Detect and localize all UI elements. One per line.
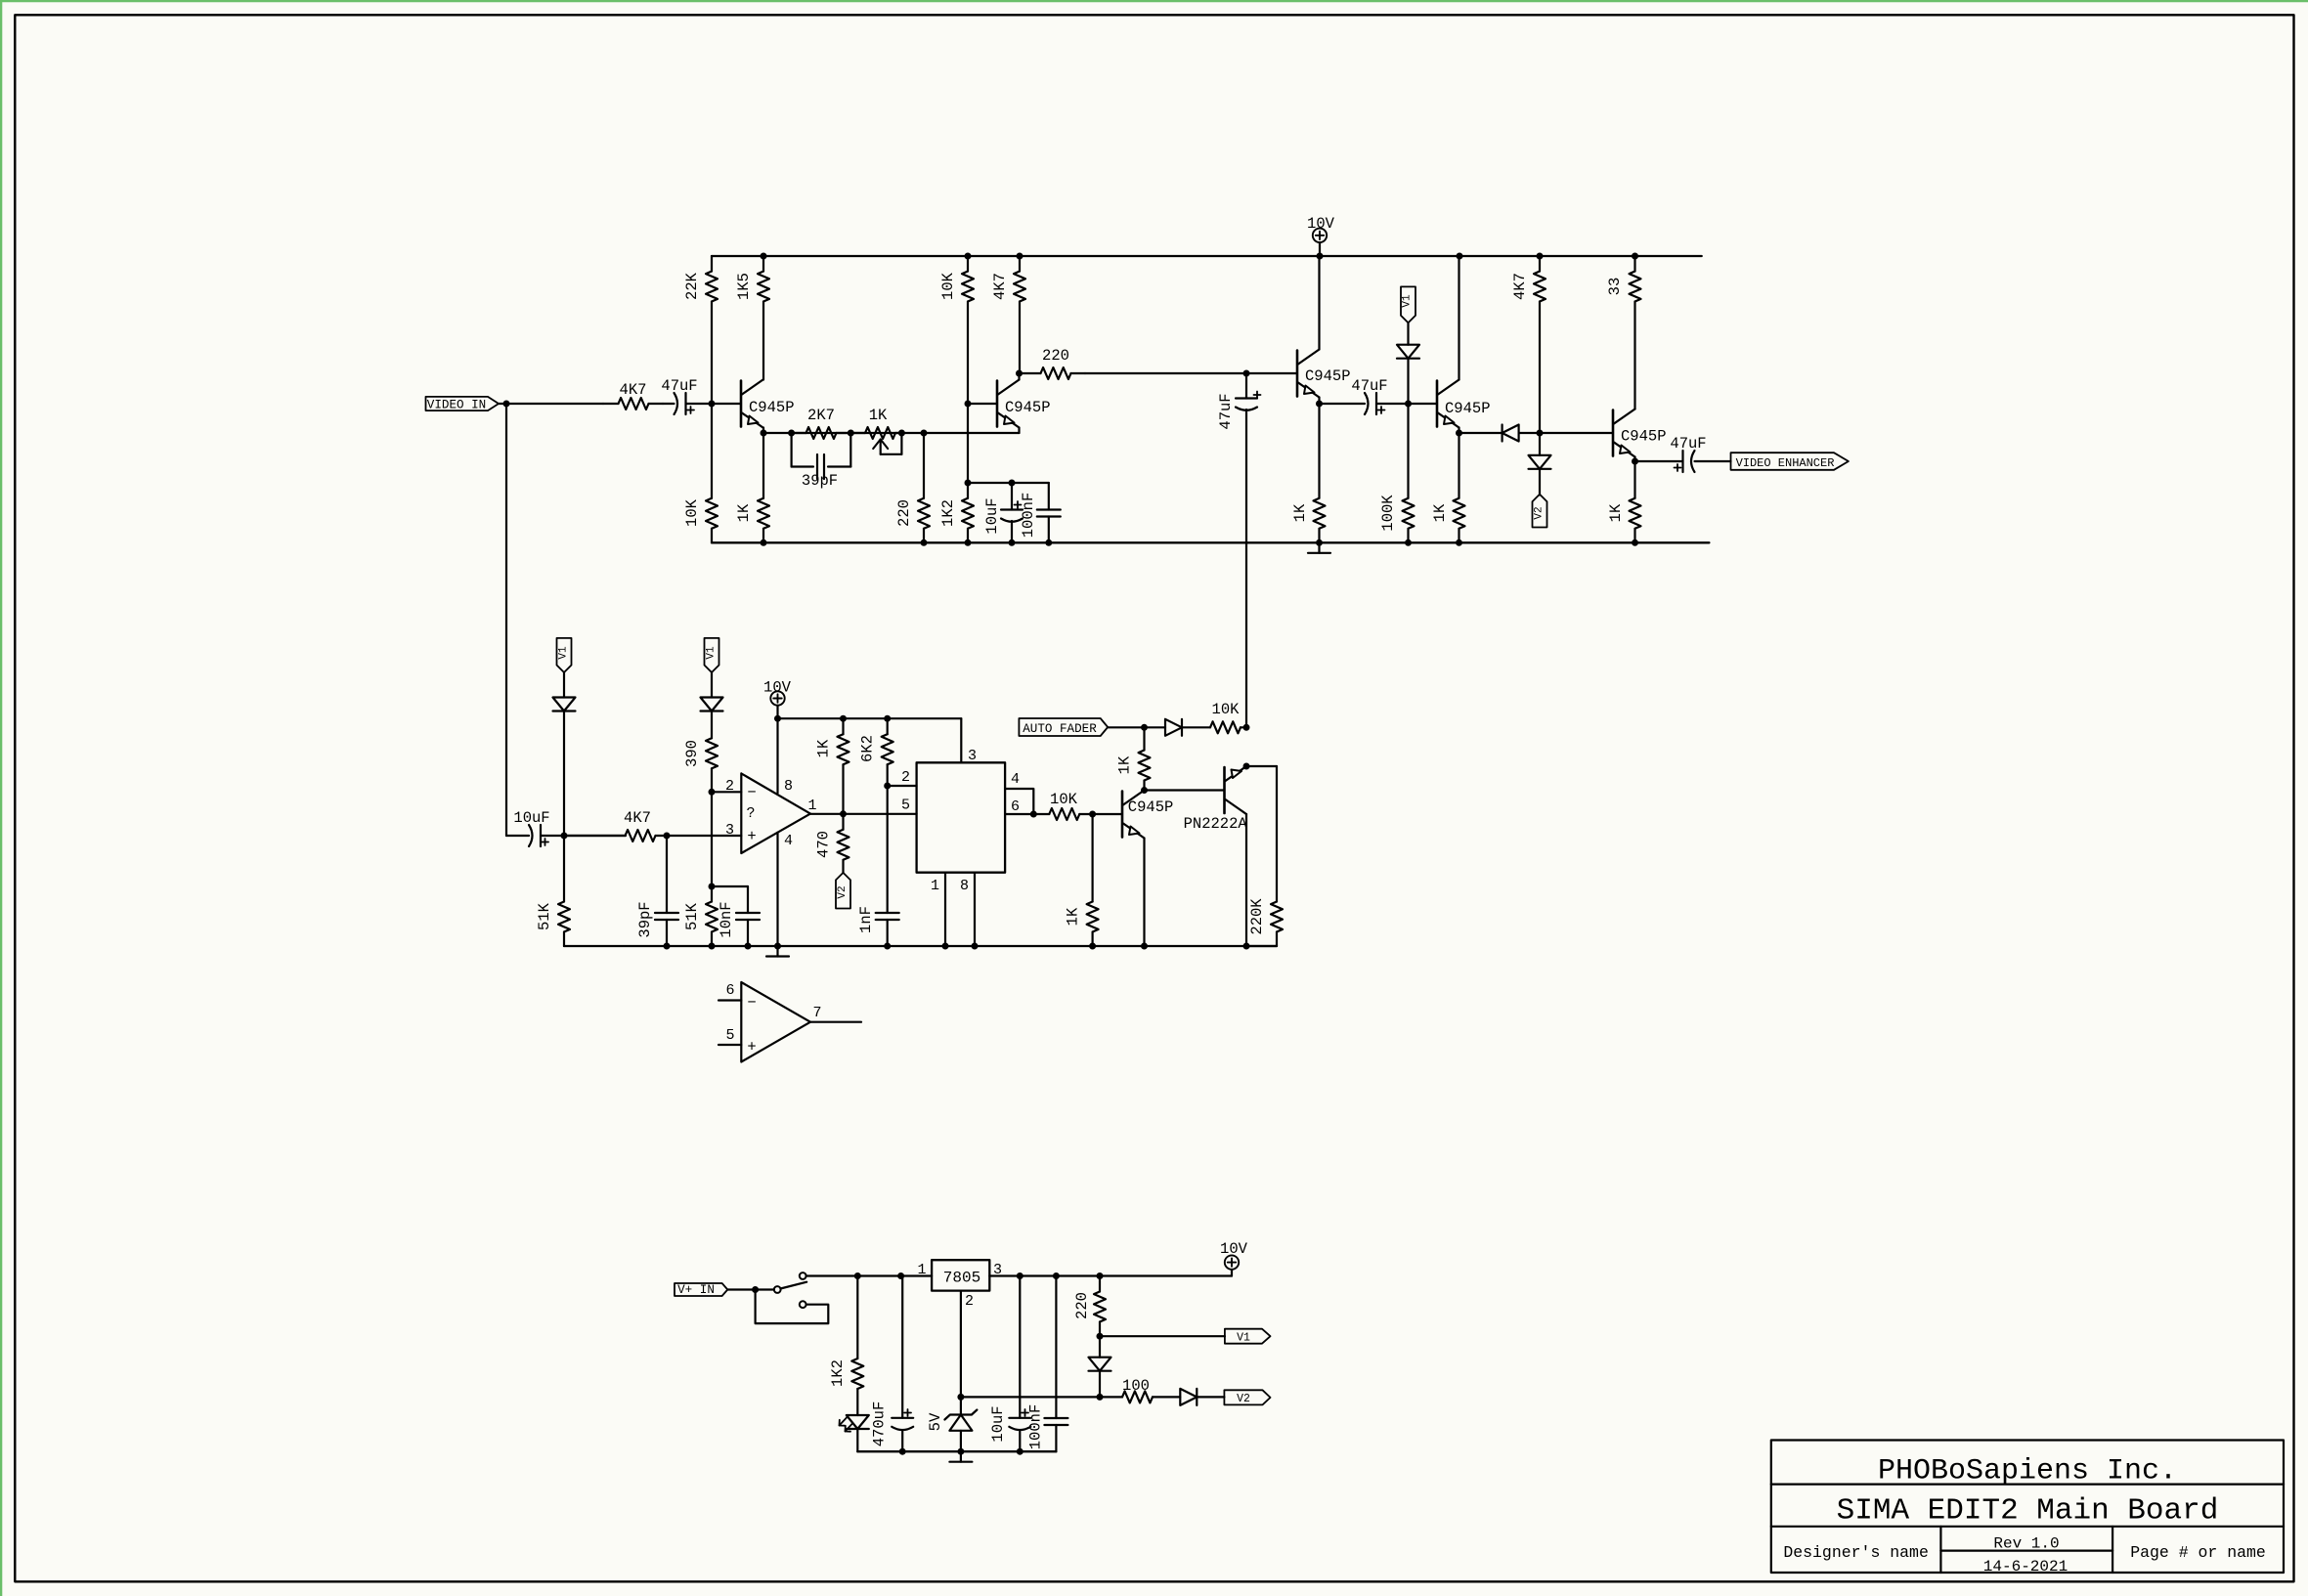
node 39pF / pin3	[664, 833, 671, 840]
resistor 1K (Q4 emitter)	[1431, 433, 1465, 542]
svg-text:Designer's name: Designer's name	[1783, 1543, 1929, 1562]
power symbol 10V (mid)	[763, 679, 792, 706]
svg-text:C945P: C945P	[1128, 798, 1174, 816]
wire V1 to diode	[1407, 323, 1409, 344]
global label V1	[1225, 1329, 1271, 1345]
node 220 top	[921, 430, 928, 437]
svg-text:220K: 220K	[1248, 898, 1266, 935]
svg-text:Rev 1.0: Rev 1.0	[1993, 1535, 2059, 1553]
wire 4K7 to C 47uF	[663, 403, 675, 405]
wire 10nF jog	[712, 886, 748, 913]
title block frame	[1771, 1441, 2284, 1574]
svg-text:1K: 1K	[869, 407, 888, 424]
switch SW1 pivot contact	[774, 1286, 781, 1293]
node Q2 base	[965, 401, 972, 408]
node Q5 1K bottom rail	[1632, 539, 1638, 546]
node 2K7 left	[788, 430, 795, 437]
node rail junction 1K5	[761, 253, 767, 260]
svg-text:7: 7	[812, 1005, 821, 1021]
wire IC pin2 stub	[888, 769, 917, 786]
node pin1 rail	[942, 943, 949, 950]
global label V+ IN	[675, 1283, 727, 1297]
title designer	[1783, 1543, 1929, 1562]
transistor Q2 C945P	[997, 380, 1051, 428]
wire 6K2 node down to 1nF	[887, 786, 889, 913]
title rev	[1993, 1535, 2059, 1553]
svg-text:51K: 51K	[683, 902, 701, 930]
switch SW1 lower contact	[800, 1301, 806, 1308]
ground (mid section)	[766, 946, 789, 957]
node rail junction 4K7 interstage	[1017, 253, 1023, 260]
capacitor 47uF (fader feed)	[1217, 373, 1261, 727]
node output / 1K / 470	[840, 810, 847, 817]
svg-text:100nF: 100nF	[1027, 1404, 1045, 1450]
svg-text:100K: 100K	[1379, 495, 1397, 532]
svg-text:470: 470	[815, 831, 833, 858]
svg-text:10V: 10V	[1220, 1240, 1248, 1258]
wire U1B pin5 stub	[719, 1027, 741, 1045]
wire diode to 390	[711, 712, 713, 739]
svg-text:1K2: 1K2	[829, 1359, 847, 1387]
trimmer 1K	[850, 407, 901, 454]
resistor 390	[683, 738, 718, 768]
svg-text:5: 5	[725, 1027, 734, 1044]
flag V1 (top)	[1401, 286, 1415, 323]
wire V1 flag to diode 2	[711, 672, 713, 698]
flag V1 (mid left)	[557, 638, 572, 672]
transistor Q1 C945P	[741, 380, 795, 428]
wire 10uF to 4K7	[541, 835, 626, 837]
svg-text:V1: V1	[706, 646, 718, 660]
node 1K bottom rail	[761, 539, 767, 546]
node 1K2 bottom rail	[965, 539, 972, 546]
node 1K2 column top	[854, 1272, 861, 1279]
wire 39pF left drop	[792, 433, 813, 467]
wire V2 row	[961, 1396, 1122, 1398]
node op-amp pin2	[709, 789, 716, 796]
node 47uF fader tap	[1243, 370, 1250, 377]
wire IC pin1 stub	[931, 873, 945, 946]
node trimmer wiper	[898, 430, 905, 437]
node 2K7 right	[848, 430, 854, 437]
svg-text:6: 6	[725, 982, 734, 999]
svg-text:100nF: 100nF	[1020, 493, 1037, 539]
power symbol 10V (top)	[1307, 215, 1335, 242]
transistor Q7 PN2222A	[1184, 766, 1248, 833]
node 470uF rail	[899, 1448, 906, 1455]
svg-text:10nF: 10nF	[718, 901, 735, 937]
resistor 100K	[1379, 404, 1415, 542]
svg-text:C945P: C945P	[1445, 400, 1491, 417]
wire Q3 collector	[1318, 256, 1320, 350]
resistor 33	[1606, 256, 1641, 410]
node 10uF bottom rail	[1009, 539, 1016, 546]
node 10nF bottom rail	[745, 943, 752, 950]
wire IC pin3 stub	[961, 718, 977, 764]
node 10V mid rail	[774, 715, 781, 722]
LED D (power)	[840, 1415, 869, 1432]
wire Q2 bias down	[967, 404, 969, 483]
svg-text:14-6-2021: 14-6-2021	[1983, 1558, 2068, 1575]
resistor 220 (V1 feed)	[1073, 1276, 1106, 1337]
svg-text:1K: 1K	[815, 739, 833, 757]
resistor 220K	[1246, 766, 1283, 946]
wire zener to rail	[960, 1431, 962, 1451]
wire 39pF right drop	[828, 433, 850, 467]
node 51K bottom rail	[709, 943, 716, 950]
capacitor 39pF (fader)	[636, 836, 678, 946]
resistor 1K5	[735, 256, 769, 380]
power symbol 10V (bottom)	[1220, 1240, 1248, 1270]
resistor 6K2	[859, 718, 893, 786]
wire op-amp output	[810, 798, 917, 814]
svg-text:22K: 22K	[683, 272, 701, 300]
wire 7805 pin2 down	[960, 1291, 962, 1415]
capacitor 39pF (top)	[802, 454, 838, 490]
svg-text:33: 33	[1606, 278, 1624, 296]
node 4K7 / diode column	[1537, 430, 1544, 437]
node pin4 rail	[774, 943, 781, 950]
resistor 1K2 (LED)	[829, 1276, 863, 1416]
node zener rail	[957, 1448, 964, 1455]
node Q3 1K bottom rail	[1316, 539, 1323, 546]
title date	[1983, 1558, 2068, 1575]
wire VIDEO IN to R 4K7	[499, 403, 603, 405]
diode D (V1 top)	[1397, 345, 1419, 359]
svg-text:SIMA EDIT2 Main Board: SIMA EDIT2 Main Board	[1837, 1494, 2219, 1529]
wire Q2 base to bar	[968, 403, 997, 405]
capacitor 47uF (output)	[1670, 435, 1706, 472]
node Q4 1K bottom rail	[1456, 539, 1462, 546]
svg-text:V2: V2	[1534, 506, 1546, 519]
diode D (auto fader)	[1165, 719, 1182, 736]
resistor 10K (fader injection)	[1210, 701, 1246, 733]
node Q4 emitter	[1456, 430, 1462, 437]
wire 10V row	[778, 717, 962, 719]
svg-text:VIDEO IN: VIDEO IN	[427, 399, 486, 412]
svg-text:AUTO FADER: AUTO FADER	[1023, 722, 1097, 736]
diode D (level shift)	[1502, 425, 1519, 442]
global label VIDEO IN	[426, 397, 500, 412]
wire AUTO FADER row	[1108, 726, 1165, 728]
resistor 10K (lower divider)	[683, 404, 718, 542]
top supply rail	[712, 255, 1702, 257]
transistor Q5 C945P	[1613, 410, 1667, 457]
wire 390 to pin2 node	[711, 768, 713, 792]
node V2 row junction	[1097, 1394, 1104, 1401]
svg-text:V2: V2	[837, 885, 849, 898]
wire Q6 emitter down	[1143, 839, 1145, 947]
wire Q5 emitter to output cap	[1635, 460, 1683, 462]
node 10uF pw top	[1017, 1272, 1023, 1279]
node 6K2 top	[884, 715, 891, 722]
diode D (to V2)	[1529, 433, 1551, 469]
wire pin3 row	[667, 835, 741, 837]
middle section ground rail	[564, 945, 1277, 947]
node 51K / input	[561, 833, 568, 840]
wire switch to 7805 pin1	[806, 1274, 933, 1276]
svg-text:C945P: C945P	[1005, 399, 1051, 416]
wire 10V stem (mid)	[776, 706, 778, 719]
wire 220 to Q3 base	[1085, 372, 1297, 374]
svg-text:?: ?	[746, 805, 755, 822]
global label AUTO FADER	[1019, 718, 1108, 736]
wire diode to V2 flag	[1539, 469, 1541, 495]
node 1K top	[840, 715, 847, 722]
resistor 1K (Q3 emitter)	[1291, 404, 1326, 542]
svg-text:390: 390	[683, 740, 701, 767]
svg-text:4K7: 4K7	[624, 809, 651, 827]
svg-text:PHOBoSapiens Inc.: PHOBoSapiens Inc.	[1878, 1455, 2177, 1488]
svg-text:10uF: 10uF	[513, 809, 549, 827]
node 10uF pw rail	[1017, 1448, 1023, 1455]
resistor 4K7 (input)	[603, 381, 663, 410]
svg-text:VIDEO ENHANCER: VIDEO ENHANCER	[1736, 456, 1835, 470]
green screen border (left edge)	[0, 0, 2, 1596]
capacitor 10uF (decoupling)	[983, 483, 1023, 542]
wire Q7 emitter to 220K	[1246, 765, 1277, 767]
svg-text:4K7: 4K7	[620, 381, 647, 399]
capacitor 10uF (power)	[989, 1276, 1030, 1452]
wire V+IN to switch	[727, 1288, 774, 1290]
svg-text:10K: 10K	[939, 272, 957, 300]
node 10K / 1K / Q6 base	[1089, 811, 1096, 818]
diode D (V1 mid-right)	[701, 698, 723, 712]
resistor 1K2	[939, 483, 974, 542]
svg-text:1K: 1K	[1291, 503, 1309, 522]
svg-text:1K: 1K	[1065, 907, 1082, 926]
svg-text:4: 4	[784, 833, 793, 849]
wire node to 10uF/100nF	[968, 482, 1049, 484]
wire 10V riser	[1231, 1270, 1233, 1276]
resistor 220 (interstage)	[1020, 347, 1086, 379]
title sheet name	[1837, 1494, 2219, 1529]
resistor 1K (Q6 base shunt)	[1065, 814, 1099, 946]
capacitor 100nF (power)	[1027, 1276, 1068, 1452]
wire 47uF to Q1 base	[686, 403, 742, 405]
svg-text:1: 1	[917, 1262, 926, 1278]
IC U2 box	[917, 762, 1006, 872]
node 1K fader top	[1141, 724, 1148, 731]
resistor 470	[815, 814, 849, 873]
diode D (V2 out)	[1180, 1389, 1197, 1405]
wire Q2 emitter stub	[1018, 428, 1020, 434]
node rail junction 4K7	[1537, 253, 1544, 260]
node 100K bottom rail	[1405, 539, 1412, 546]
node rail junction Q4 collector	[1457, 253, 1463, 260]
resistor 1K (op-amp out pull-up)	[815, 718, 849, 814]
node Q1 emitter	[761, 430, 767, 437]
wire Q4 emitter to diode	[1459, 432, 1502, 434]
node IC pin2	[884, 783, 891, 790]
svg-text:47uF: 47uF	[661, 377, 697, 395]
svg-text:2K7: 2K7	[807, 407, 835, 424]
svg-text:6: 6	[1011, 798, 1020, 815]
wire LED to rail	[856, 1429, 858, 1451]
svg-text:39pF: 39pF	[636, 901, 654, 937]
resistor 10K (Q2 bias)	[939, 256, 974, 404]
resistor 4K7 (pull-up)	[1511, 256, 1546, 433]
node 10uF top	[1009, 480, 1016, 487]
node Q2 collector	[1016, 370, 1023, 377]
wire 47uF to Q4 base	[1376, 403, 1437, 405]
node 39pF bottom rail	[664, 943, 671, 950]
svg-text:1K: 1K	[1607, 503, 1625, 522]
svg-text:V2: V2	[1237, 1393, 1250, 1405]
capacitor 10nF	[718, 901, 760, 946]
node 1nF bottom rail	[884, 943, 891, 950]
wire Q3 emitter to 47uF	[1320, 403, 1366, 405]
svg-text:10uF: 10uF	[989, 1405, 1007, 1442]
ground (power section)	[949, 1451, 972, 1462]
svg-text:5V: 5V	[927, 1412, 944, 1431]
wire switch bypass loop	[756, 1290, 829, 1324]
svg-text:C945P: C945P	[1621, 428, 1667, 446]
zener 5V	[927, 1410, 977, 1432]
wire Q3 emitter stub	[1318, 398, 1320, 405]
node V+IN tap	[752, 1286, 759, 1293]
wire V1 row	[1100, 1335, 1225, 1337]
wire Q1 emitter stub	[762, 428, 764, 434]
regulator U3 7805	[917, 1260, 1002, 1310]
node A junction (VIDEO IN tap)	[503, 401, 510, 408]
node 10V rail	[1317, 253, 1324, 260]
green screen border (top edge)	[0, 0, 2308, 2]
svg-text:2: 2	[965, 1293, 974, 1310]
node Q5 emitter	[1632, 458, 1638, 465]
wire to Q6 base	[1093, 813, 1122, 815]
svg-text:10K: 10K	[1050, 791, 1078, 808]
svg-text:1K2: 1K2	[939, 499, 957, 527]
node pin6/pin4	[1030, 811, 1037, 818]
svg-text:−: −	[747, 784, 756, 801]
wire cap to VIDEO ENHANCER	[1695, 460, 1731, 462]
wire 7805 pin3 row	[989, 1274, 1232, 1276]
node V1 row	[1097, 1333, 1104, 1340]
wire input column corner to 10uF	[506, 835, 529, 837]
switch SW1 lever	[780, 1282, 806, 1289]
ground (top section)	[1308, 542, 1330, 553]
svg-text:1K: 1K	[1431, 503, 1449, 522]
resistor 4K7 (Q2 collector load)	[991, 256, 1025, 373]
diode D (V1 to V2)	[1089, 1336, 1111, 1397]
wire IC pin8 stub	[960, 873, 975, 946]
svg-text:1: 1	[931, 878, 939, 894]
title page	[2130, 1543, 2266, 1562]
svg-text:4K7: 4K7	[991, 273, 1009, 300]
resistor 1K (Q5 emitter)	[1607, 461, 1641, 542]
wire op-amp pin4 ground	[776, 833, 778, 946]
resistor 4K7 (fader input)	[564, 809, 667, 841]
wire diode down to input node	[563, 712, 565, 837]
transistor Q4 C945P	[1437, 380, 1491, 428]
node Q4 base / V1 diode	[1405, 401, 1412, 408]
flag V2 (top)	[1533, 495, 1547, 528]
svg-text:39pF: 39pF	[802, 472, 838, 490]
svg-text:5: 5	[901, 798, 910, 814]
op-amp U1B (spare)	[741, 982, 810, 1062]
resistor 100	[1122, 1377, 1180, 1402]
svg-text:1K: 1K	[735, 503, 753, 522]
svg-text:1K5: 1K5	[735, 273, 753, 300]
svg-text:3: 3	[725, 822, 734, 839]
svg-text:8: 8	[784, 778, 793, 795]
node 100nF pw top	[1053, 1272, 1060, 1279]
svg-text:4: 4	[1011, 771, 1020, 788]
bottom rail (top section)	[712, 541, 1709, 543]
power ground rail	[857, 1450, 1056, 1452]
svg-text:C945P: C945P	[1305, 367, 1351, 385]
wire Q4 collector	[1458, 256, 1459, 380]
wire node A down to coupling cap 10uF	[505, 404, 507, 836]
svg-text:+: +	[747, 828, 756, 845]
node Q3 emitter	[1316, 401, 1323, 408]
wire pin2 node down	[711, 792, 713, 901]
flag V2 (mid)	[836, 873, 850, 909]
node fader column	[1243, 724, 1250, 731]
resistor 1K (Q1 emitter)	[735, 433, 769, 542]
svg-text:10uF: 10uF	[983, 497, 1001, 534]
global label VIDEO ENHANCER	[1731, 453, 1849, 470]
capacitor 100nF (top section)	[1020, 483, 1061, 542]
node rail junction 33	[1632, 253, 1638, 260]
svg-text:100: 100	[1122, 1377, 1150, 1395]
diode D (V1 mid-left)	[553, 698, 576, 712]
wire diode to Q4 base node	[1407, 359, 1409, 404]
capacitor 10uF (fader input)	[513, 809, 549, 846]
wire Q4 emitter stub	[1458, 428, 1459, 434]
wire Q7 collector down	[1245, 814, 1247, 946]
svg-text:V1: V1	[558, 646, 570, 660]
node 10nF tap	[709, 884, 716, 890]
resistor 1K (fader)	[1116, 727, 1151, 790]
node Q7 collector rail	[1243, 943, 1250, 950]
capacitor 470uF	[871, 1276, 914, 1452]
capacitor 47uF (input coupling)	[661, 377, 697, 414]
node Q7 emitter (top)	[1243, 763, 1250, 770]
svg-text:220: 220	[1073, 1292, 1091, 1319]
svg-text:2: 2	[725, 778, 734, 795]
wire diode to 4K7 node	[1519, 432, 1613, 434]
node 220 bottom rail	[921, 539, 928, 546]
svg-text:220: 220	[895, 499, 913, 527]
svg-text:47uF: 47uF	[1670, 435, 1706, 453]
node Q6 1K rail	[1089, 943, 1096, 950]
resistor 10K (fader drive)	[1033, 791, 1092, 820]
capacitor 47uF (interstage)	[1351, 377, 1387, 414]
svg-text:10K: 10K	[1212, 701, 1241, 718]
node 100nF bottom rail	[1045, 539, 1052, 546]
svg-text:1: 1	[807, 798, 816, 814]
node 1K2 top	[965, 480, 972, 487]
global label V2	[1224, 1390, 1270, 1405]
svg-text:+: +	[747, 1039, 756, 1057]
svg-text:1nF: 1nF	[857, 906, 875, 933]
svg-text:C945P: C945P	[749, 399, 795, 416]
wire feedback row	[763, 432, 1020, 434]
node pin8 rail	[972, 943, 979, 950]
title company name	[1878, 1455, 2177, 1488]
resistor 51K (left)	[536, 836, 570, 946]
node divider/base junction	[709, 401, 716, 408]
resistor 2K7	[792, 407, 851, 439]
node zener / V2 row	[957, 1394, 964, 1401]
node 220 pw top	[1097, 1272, 1104, 1279]
wire op-amp pin8 supply	[776, 718, 778, 793]
capacitor 1nF	[857, 906, 899, 946]
resistor 22K	[683, 256, 718, 404]
transistor Q3 C945P	[1297, 350, 1351, 398]
